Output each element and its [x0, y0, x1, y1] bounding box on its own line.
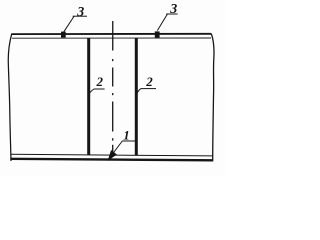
right break edge wire — [211, 34, 214, 161]
bottom plate lower contour line — [10, 159, 213, 161]
vertical pipe line 2 (right) — [135, 38, 138, 155]
svg-text:3: 3 — [169, 2, 177, 17]
underline for label 3 (left) — [73, 15, 87, 17]
leader line for label 3 (left) — [64, 16, 74, 31]
leader line for label 2 (right) — [137, 89, 141, 95]
underline for label 2 (right) — [141, 88, 156, 90]
top plate lower thin line — [12, 37, 211, 39]
underline for label 3 (right) — [166, 13, 177, 15]
underline for label 1 — [122, 140, 135, 142]
weld point 3 (left, filled square) — [61, 32, 66, 38]
leader line for label 2 (left) — [88, 89, 94, 96]
bottom plate upper thin line — [11, 154, 213, 156]
vertical pipe line 2 (left) — [87, 38, 90, 154]
leader line for label 1 — [110, 141, 123, 158]
top plate upper contour line — [12, 33, 212, 35]
weld point 3 (right, filled square) — [155, 31, 160, 37]
leader line for label 3 (right) — [157, 14, 167, 30]
svg-text:1: 1 — [123, 128, 130, 143]
centerline 1 (dash-dot axis) — [112, 21, 114, 157]
left break edge wire — [8, 34, 12, 161]
svg-text:3: 3 — [76, 5, 84, 20]
svg-text:2: 2 — [145, 74, 153, 89]
svg-text:2: 2 — [96, 74, 104, 89]
underline for label 2 (left) — [94, 88, 105, 90]
arrowhead of leader 1 — [108, 150, 117, 161]
